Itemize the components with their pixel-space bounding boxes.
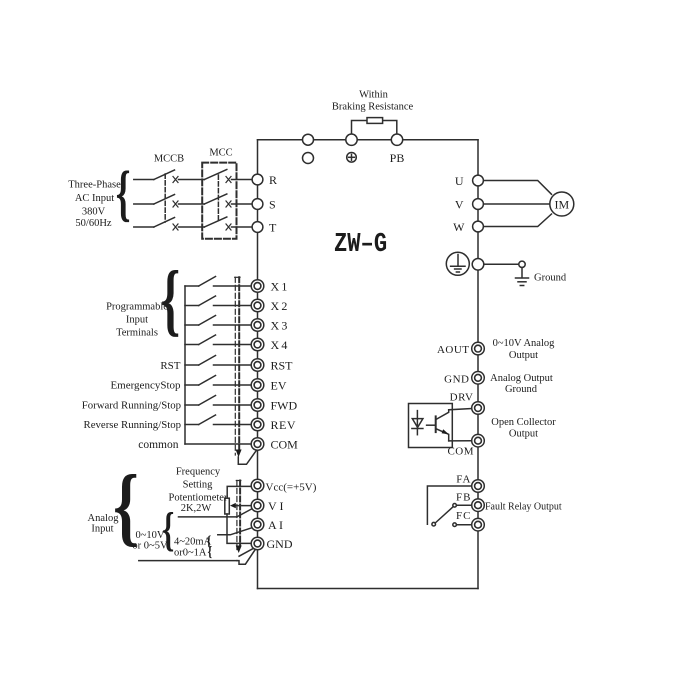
wire ac pole T to terminal [232,226,253,228]
OPEN-COLLECTOR-SECTION [409,404,472,448]
wire input FWD to terminal [214,404,252,406]
svg-text:ZW–G: ZW–G [334,229,387,260]
wire: FC contact to FC [457,524,472,526]
wire: V to motor [483,203,549,205]
svg-text:Output: Output [509,350,538,361]
svg-text:R: R [269,173,277,187]
contactor MCC blade R [204,170,227,180]
terminal PB [391,134,402,145]
terminal X4 [251,338,264,351]
wire: 0-10V input to VI [179,508,254,517]
svg-text:W: W [453,220,465,234]
wire: U to motor [483,181,551,195]
svg-text:PB: PB [390,151,405,165]
svg-text:0~10V Analog: 0~10V Analog [493,338,556,349]
wire: collector to DRV [449,409,472,410]
wire: inverter right bus [477,140,479,589]
wire input stub REV [185,424,199,426]
wire: shield hook to GND [237,549,256,564]
ground symbol [516,268,529,286]
terminal RST [251,359,264,372]
svg-text:X1: X1 [271,280,290,294]
svg-text:T: T [269,221,277,235]
terminal X1 [251,280,264,293]
shield arrow upper [236,450,242,458]
svg-text:{: { [208,543,213,560]
wire ac pole R mid [179,179,205,181]
contactor MCC blade S [204,194,227,204]
terminal FB [472,499,485,512]
terminal Vcc [251,479,264,492]
terminal W [473,221,484,232]
svg-text:Reverse Running/Stop: Reverse Running/Stop [84,419,181,431]
wire: arrow diagonal to GND [239,548,255,557]
wire input stub X1 [185,285,199,287]
RIGHT-SECTION [446,175,574,285]
wire: W to motor [483,214,551,227]
terminal DRV [472,402,485,415]
svg-text:V I: V I [268,499,283,513]
svg-text:Vcc(=+5V): Vcc(=+5V) [266,481,317,493]
BRACES [113,160,212,560]
symbol plus-marker [347,153,357,163]
svg-text:Setting: Setting [183,480,214,491]
switch blade X3 [199,316,216,326]
svg-text:RST: RST [160,360,180,372]
wire input stub X4 [185,344,199,346]
contactor MCC contact x S [226,201,231,207]
FAULT-RELAY-SECTION [427,486,472,527]
svg-text:Input: Input [91,523,113,534]
transistor Q1 [427,410,449,441]
contactor MCC dashed box [202,163,236,239]
svg-text:S: S [269,198,276,212]
optocoupler box [409,404,453,448]
svg-text:or0~1A: or0~1A [174,547,207,558]
wire input EV to terminal [214,384,252,386]
wire: Vcc to pot top [227,486,251,498]
terminal S [252,199,263,210]
potentiometer body [225,498,230,514]
terminal PE [472,259,484,271]
ANALOG-SECTION [139,481,256,565]
wire input X4 to terminal [214,344,252,346]
wire: FB contact to FB [457,504,472,506]
svg-text:FA: FA [456,474,471,486]
wire input stub FWD [185,404,199,406]
MAIN-BOX-GROUP [258,140,479,589]
svg-text:Potentiometer: Potentiometer [169,492,228,503]
svg-text:{: { [162,503,174,556]
wire: common to COM [185,443,252,445]
svg-text:AC Input: AC Input [75,193,114,204]
wire: shield hook to COM [238,450,256,465]
brace 0-1A small [208,543,213,560]
terminal U [473,175,484,186]
wire input RST to terminal [214,364,252,366]
svg-text:A I: A I [268,518,283,532]
wire: 4-20mA input to AI [218,527,254,535]
svg-text:{: { [113,457,139,554]
terminal X3 [251,319,264,332]
terminal VI [251,499,264,512]
brace three-phase [116,160,131,229]
wire ac pole T left [134,226,154,228]
terminal COM2 [472,434,485,447]
svg-text:Output: Output [509,428,538,439]
wire: inverter left bus [257,140,259,589]
svg-text:X2: X2 [271,299,290,313]
terminal FA [472,480,485,493]
resistor loop wire [352,121,397,135]
breaker MCCB blade R [154,170,175,180]
wire input stub X2 [185,305,199,307]
svg-text:Input: Input [126,314,148,325]
terminal GND [251,537,264,550]
wire input stub EV [185,384,199,386]
svg-text:AOUT: AOUT [437,344,470,356]
svg-text:V: V [455,197,464,211]
PHASE-ROWS (R,S,T poles) [134,170,252,231]
wire: input common bus [184,286,186,444]
ground stub circle [519,261,525,267]
contactor MCC dashed linkage [217,175,219,223]
switch blade X2 [199,296,216,306]
svg-text:FB: FB [456,492,471,504]
svg-text:DRV: DRV [450,391,474,403]
wire: PE to ground [484,263,519,265]
relay pole circle [432,522,436,526]
svg-text:MCCB: MCCB [154,154,184,165]
terminal AOUT [472,342,485,355]
svg-text:Analog Output: Analog Output [490,373,553,384]
wire ac pole R left [134,179,154,181]
terminal GND2 [472,372,485,385]
svg-text:Three-Phase: Three-Phase [68,179,121,190]
terminal AI [251,518,264,531]
wire ac pole S left [134,203,154,205]
svg-text:FWD: FWD [271,399,298,413]
RIGHT-TERMINALS doubles [472,342,485,531]
switch blade REV [199,415,216,425]
svg-text:Forward Running/Stop: Forward Running/Stop [82,400,181,412]
svg-text:{: { [116,160,131,229]
pot wiper arrow [230,503,236,508]
wire input X3 to terminal [214,324,252,326]
svg-text:MCC: MCC [209,147,232,158]
svg-text:Fault Relay Output: Fault Relay Output [485,501,562,512]
svg-text:EmergencyStop: EmergencyStop [110,380,181,392]
wire: pot bottom to GND [227,514,251,543]
wire input X1 to terminal [214,285,252,287]
svg-text:IM: IM [554,197,569,211]
wire: FA left loop [427,486,472,524]
wire ac pole S to terminal [232,203,253,205]
THREE-PHASE-INPUT [165,163,236,239]
breaker MCCB dashed linkage [164,174,166,222]
svg-text:Within: Within [359,89,388,100]
terminal FC [472,518,485,531]
terminal COM [251,438,264,451]
relay FB contact [453,504,457,508]
brace 4-20mA small [207,533,212,550]
breaker MCCB contact x S [173,201,178,207]
terminal minus-top [303,134,314,145]
switch blade RST [199,356,216,366]
svg-text:GND: GND [267,537,293,551]
svg-text:X3: X3 [271,319,290,333]
terminal FWD [251,399,264,412]
svg-text:Open Collector: Open Collector [491,417,556,428]
svg-text:REV: REV [271,418,297,432]
svg-text:FC: FC [456,510,471,522]
svg-text:Frequency: Frequency [176,467,221,478]
switch blade X1 [199,277,216,287]
shield arrow lower [236,546,242,554]
breaker MCCB blade T [154,218,175,228]
wire ac pole R to terminal [232,179,253,181]
breaker MCCB contact x R [173,177,178,183]
brace analog-input [113,457,139,554]
terminal R [252,174,263,185]
wire ac pole S mid [179,203,205,205]
diode D1 [412,411,423,435]
TOP-SECTION [303,118,403,164]
brace 0-10V [162,503,174,556]
contactor MCC blade T [204,217,227,227]
svg-text:COM: COM [447,446,474,458]
breaker MCCB blade S [154,195,175,205]
TEXT-LAYER [68,89,569,558]
wire: pot wiper to VI [235,505,251,507]
svg-text:Braking Resistance: Braking Resistance [332,102,414,113]
switch blade EV [199,376,216,386]
svg-text:COM: COM [271,438,299,452]
svg-text:EV: EV [271,379,287,393]
svg-text:50/60Hz: 50/60Hz [75,218,112,229]
switch blade X4 [199,335,216,345]
svg-text:2K,2W: 2K,2W [181,503,212,514]
svg-text:Ground: Ground [505,384,538,395]
resistor braking [367,118,383,124]
wire: emitter to COM [449,440,472,442]
cable shield dashed pair lower [236,481,241,552]
PROGRAMMABLE-INPUT-SECTION [185,277,257,465]
cable shield dashed pair upper [235,277,240,455]
wire input REV to terminal [214,424,252,426]
terminal plus [346,134,357,145]
wire input stub X3 [185,324,199,326]
relay FC contact [453,523,457,527]
wire ac pole T mid [179,226,205,228]
svg-text:Ground: Ground [534,272,567,283]
svg-text:U: U [455,174,464,188]
svg-text:380V: 380V [82,206,106,217]
svg-text:common: common [138,439,178,451]
svg-text:0~10V: 0~10V [135,530,164,541]
svg-text:Programmable: Programmable [106,302,168,313]
svg-text:{: { [161,255,181,344]
contactor MCC contact x T [226,224,231,230]
svg-text:Terminals: Terminals [116,328,158,339]
svg-text:RST: RST [271,359,294,373]
terminal X2 [251,299,264,312]
svg-text:X4: X4 [271,338,290,352]
svg-text:GND: GND [444,373,469,385]
switch blade FWD [199,396,216,406]
wire: inverter top bus [258,139,479,141]
wire input stub RST [185,364,199,366]
relay blade [435,507,453,523]
terminal minus-bottom [303,153,314,164]
LEFT-TERMINALS (X1..GND doubles) [251,280,264,550]
PE symbol [446,252,469,275]
terminal T [252,222,263,233]
motor IM [550,192,574,216]
brace programmable [161,255,181,344]
wire input X2 to terminal [214,305,252,307]
wire: analog common line [139,560,237,562]
terminal REV [251,418,264,431]
terminal V [473,199,484,210]
contactor MCC contact x R [226,177,231,183]
terminal EV [251,379,264,392]
label ZW-G [334,229,387,260]
breaker MCCB contact x T [173,224,178,230]
wire: inverter bottom bus [258,588,479,590]
